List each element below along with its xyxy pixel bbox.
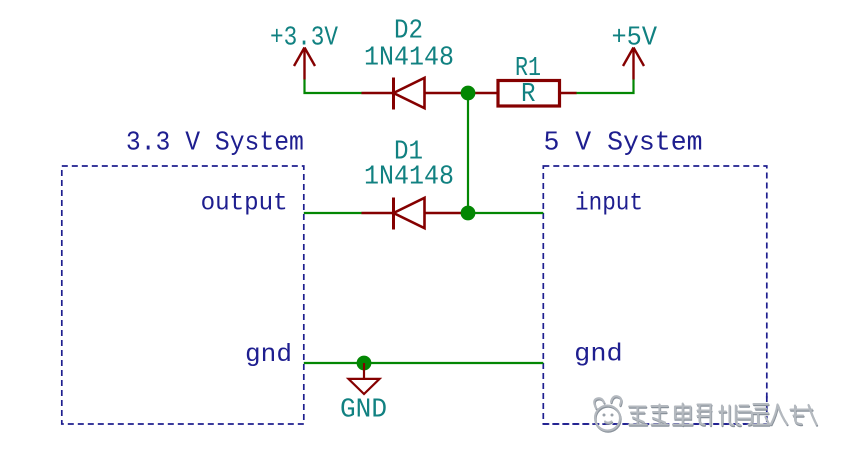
svg-text:5 V System: 5 V System [544,129,703,159]
wire top D2 to node [461,92,468,94]
power symbol +5V [623,48,644,80]
resistor R1 [475,81,577,107]
wire D1 to input [461,212,543,214]
watermark [543,396,817,432]
wire node vertical [467,93,469,213]
svg-text:R: R [521,80,536,110]
svg-text:GND: GND [340,396,387,426]
watermark logo eyes [603,414,606,417]
diode D1 [362,198,462,230]
svg-text:+3.3V: +3.3V [270,24,339,54]
watermark halo [594,396,816,430]
svg-text:gnd: gnd [574,340,623,369]
svg-text:1N4148: 1N4148 [364,163,454,193]
box 5V right edge dashes over halo [766,396,768,424]
watermark main strokes [594,396,816,430]
wire top 3.3V corner to D2 [305,80,363,94]
junction node mid [461,206,476,221]
wire gnd [304,362,544,364]
watermark emboss shadow [595,397,817,431]
diode D2 [362,78,462,110]
svg-text:D2: D2 [394,16,423,46]
svg-text:1N4148: 1N4148 [364,43,454,73]
svg-text:input: input [575,189,643,218]
junction node gnd [357,356,372,371]
junction node top [461,86,476,101]
svg-text:output: output [201,188,288,217]
svg-text:3.3 V System: 3.3 V System [126,129,304,159]
wire top R1 to 5V corner [576,80,634,94]
power symbol +3.3V [294,48,315,80]
box 5V system [543,166,767,424]
box 5V bottom dashes over halo [543,423,767,425]
svg-text:gnd: gnd [245,340,292,369]
box 3.3V system [62,166,304,424]
svg-text:+5V: +5V [612,24,658,54]
ground symbol [349,363,380,394]
wire output to D1 [304,212,362,214]
